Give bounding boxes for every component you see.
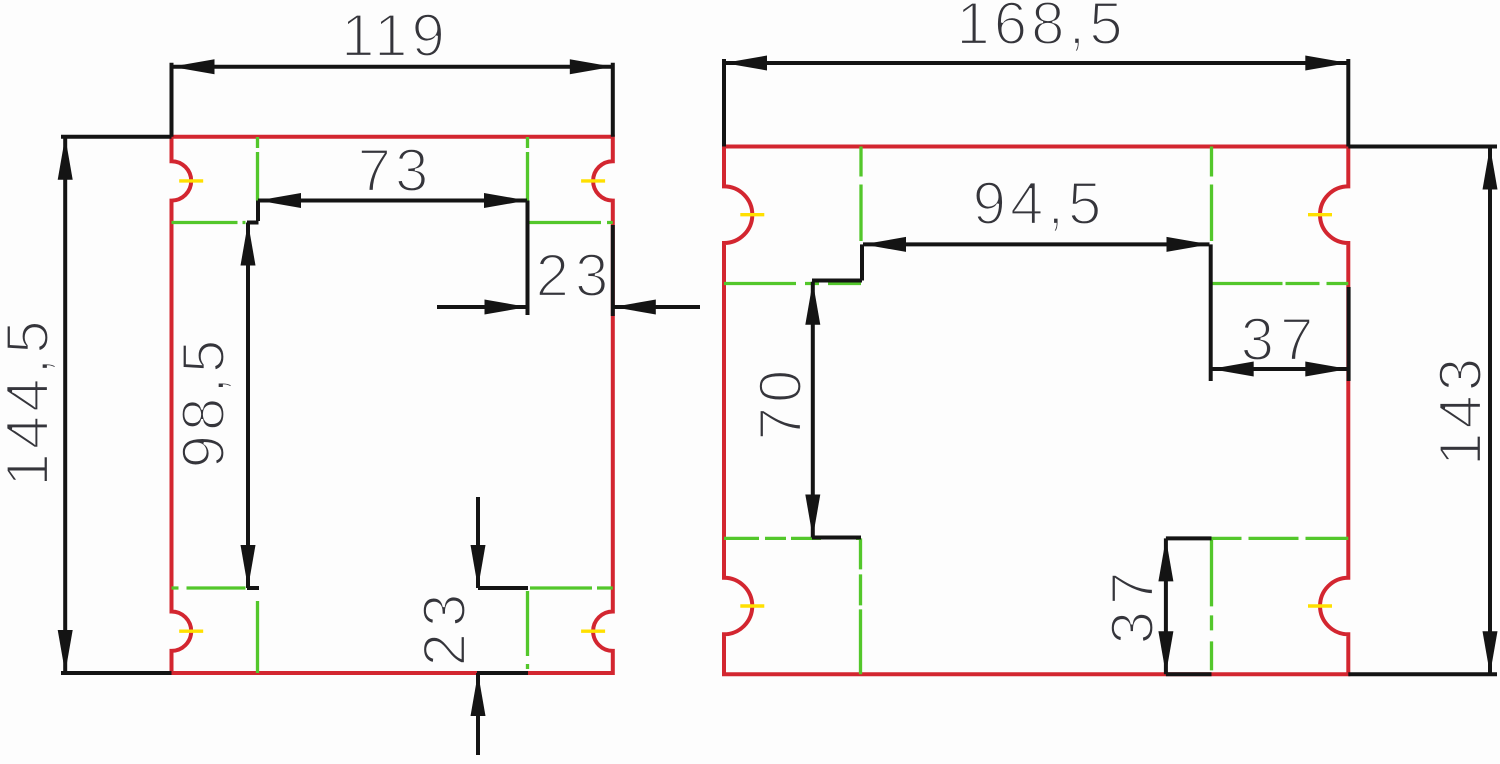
dimension 37 bottom line [1166, 538, 1212, 674]
left plate fold line bottom-left vertical [256, 601, 259, 673]
svg-text:23: 23 [411, 588, 478, 667]
svg-text:144,5: 144,5 [0, 316, 61, 486]
left plate fold line bottom-right horizontal [530, 586, 613, 589]
right plate notch center mark top-left [740, 213, 764, 216]
left plate notch center mark top-left [179, 179, 203, 182]
right plate fold line bottom-right horizontal [1212, 537, 1349, 540]
svg-text:37: 37 [1099, 566, 1166, 645]
dimension 143 line [1348, 147, 1497, 675]
dimension 23 top lines [437, 225, 700, 316]
right plate fold line top-right horizontal [1212, 282, 1349, 285]
dimension 144,5 line [61, 137, 172, 673]
svg-text:73: 73 [358, 137, 433, 204]
right plate notch center mark bottom-left [740, 604, 764, 607]
svg-text:94,5: 94,5 [973, 170, 1106, 237]
right plate fold line top-left horizontal [724, 282, 861, 285]
right plate notch center mark bottom-right [1308, 604, 1332, 607]
right plate fold line bottom-right vertical [1210, 538, 1213, 674]
dimension 144,5 arrowheads [58, 137, 73, 673]
dimension 98,5 arrowheads [241, 223, 256, 589]
left plate outline [172, 137, 613, 673]
left plate notch center mark bottom-right [581, 630, 605, 633]
dimension 70 line [812, 282, 861, 538]
svg-text:37: 37 [1241, 306, 1320, 373]
dimension 73 line [247, 201, 528, 316]
right plate fold line top-right vertical [1210, 147, 1213, 242]
dimension 73 arrowheads [258, 193, 527, 208]
dimension 119 line [172, 63, 613, 137]
dimension 37 bottom arrowheads [1158, 538, 1173, 674]
right plate fold line bottom-left vertical [859, 538, 862, 674]
dimension 37 top arrowheads [1211, 362, 1349, 377]
dimension 143 arrowheads [1483, 147, 1498, 675]
dimension 70 arrowheads [805, 282, 820, 538]
right plate notch center mark top-right [1308, 213, 1332, 216]
left plate fold line top-right vertical [526, 137, 529, 201]
left plate notch center mark top-right [581, 179, 605, 182]
dimension 23 bottom arrowheads [471, 545, 486, 716]
svg-text:70: 70 [747, 366, 814, 441]
dimension 119 arrowheads [172, 59, 613, 74]
dimension 168,5 line [724, 59, 1348, 147]
dimension 37 top line [1211, 287, 1349, 381]
left plate notch center mark bottom-left [179, 630, 203, 633]
left plate fold line top-left horizontal [172, 221, 246, 224]
right plate fold line bottom-left horizontal [724, 537, 861, 540]
svg-text:119: 119 [341, 2, 449, 69]
left plate fold line top-right horizontal [528, 221, 613, 224]
dimension 168,5 arrowheads [724, 56, 1348, 71]
dimension 23 bottom lines [477, 497, 528, 755]
dimension 23 top arrowheads [485, 300, 656, 315]
svg-text:23: 23 [536, 242, 615, 309]
left plate fold line bottom-right vertical [526, 591, 529, 673]
left plate fold line bottom-left horizontal [172, 586, 246, 589]
right plate fold line top-left vertical [859, 147, 862, 242]
svg-text:143: 143 [1427, 354, 1494, 466]
right plate outline [724, 147, 1348, 675]
svg-text:168,5: 168,5 [956, 0, 1126, 57]
left plate fold line top-left vertical [256, 137, 259, 201]
dimension 94,5 line [812, 244, 1211, 381]
svg-text:98,5: 98,5 [170, 336, 237, 469]
dimension 94,5 arrowheads [863, 237, 1210, 252]
dimension 98,5 line [247, 223, 259, 589]
